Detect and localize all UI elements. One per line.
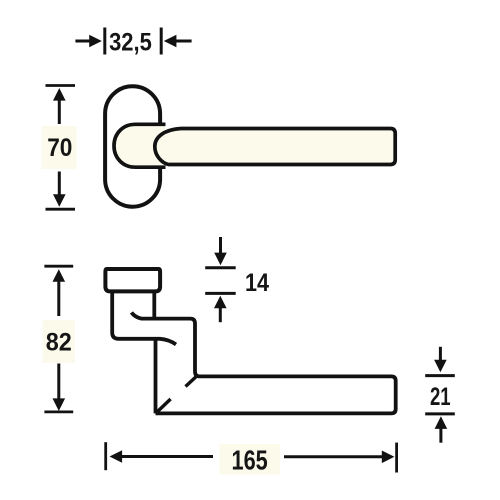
right arrow: [284, 455, 383, 458]
upper tick: [205, 266, 236, 269]
right tick: [160, 28, 163, 55]
side profile lower vertical (bar left edge): [154, 339, 158, 414]
lower tick: [425, 412, 455, 415]
ivory halo: [42, 126, 77, 169]
left arrow: [110, 450, 123, 463]
tangent tick upper (bar top-left): [186, 377, 197, 387]
down arrow: [57, 364, 60, 401]
left tick: [103, 28, 106, 55]
tangent tick lower (bar bottom-left): [156, 399, 171, 413]
left arrow: [75, 40, 91, 43]
svg-text:14: 14: [245, 269, 269, 297]
up arrow: [53, 269, 66, 282]
handle bar (front view): [155, 129, 395, 165]
bottom tick: [46, 208, 76, 211]
side profile left outline (neck left, lower step, tail): [112, 291, 176, 344]
right arrow: [164, 35, 177, 48]
upper tick: [425, 374, 455, 377]
dimension 165 (handle length): [106, 442, 397, 475]
side profile neck right vertical: [152, 291, 156, 319]
up arrow: [435, 416, 448, 429]
dimension 32,5 (rosette width): [75, 28, 191, 57]
ivory halo: [43, 320, 75, 363]
left tick: [104, 442, 107, 470]
svg-text:70: 70: [47, 134, 72, 162]
handle neck (front view): [114, 124, 166, 167]
svg-text:21: 21: [430, 383, 451, 411]
up arrow: [214, 296, 227, 309]
svg-text:32,5: 32,5: [109, 29, 152, 57]
top tick: [44, 265, 73, 268]
dimension 82 (profile height): [43, 266, 75, 412]
down arrow: [58, 172, 61, 197]
bottom tick: [44, 410, 73, 413]
right tick: [395, 443, 398, 473]
side profile cap: [105, 269, 160, 291]
svg-text:165: 165: [232, 444, 268, 475]
dimension 70 (rosette height): [42, 86, 77, 210]
dimension 21 (bar thickness): [425, 347, 455, 443]
dimension 14 (cap height): [205, 237, 269, 322]
ivory halo: [220, 444, 281, 475]
down arrow: [219, 237, 222, 255]
down arrow: [439, 347, 442, 362]
up arrow: [53, 88, 66, 101]
lower tick: [205, 292, 236, 295]
top tick: [46, 84, 76, 87]
svg-text:82: 82: [46, 328, 72, 356]
rosette (front view, oval): [105, 86, 160, 207]
side profile upper step with tail, bar outline: [132, 312, 396, 413]
